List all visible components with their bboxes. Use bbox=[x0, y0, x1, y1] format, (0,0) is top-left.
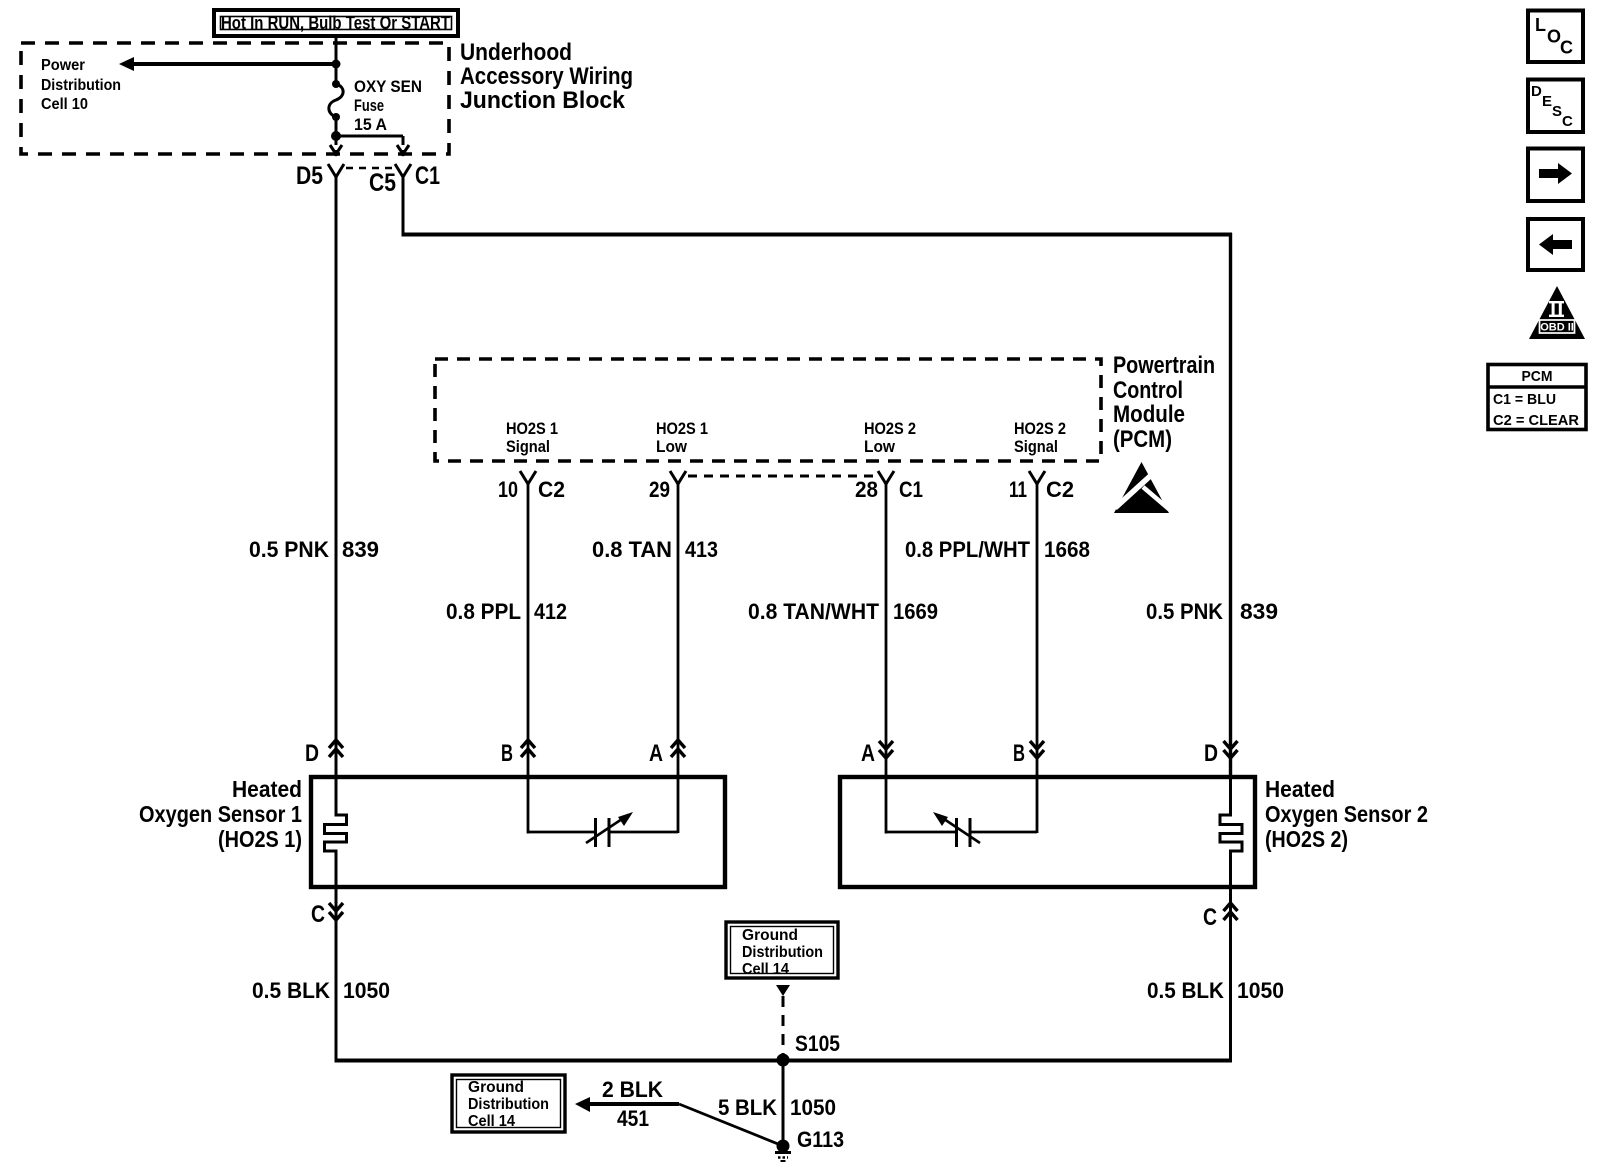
svg-text:1050: 1050 bbox=[1237, 978, 1284, 1003]
Power Distribution Cell 10 label bbox=[41, 57, 121, 113]
svg-text:D: D bbox=[1531, 83, 1542, 100]
svg-text:839: 839 bbox=[342, 537, 379, 562]
svg-text:5 BLK: 5 BLK bbox=[718, 1095, 777, 1120]
HO2S2 sensor box bbox=[840, 777, 1255, 887]
svg-text:HO2S 1: HO2S 1 bbox=[506, 419, 558, 438]
svg-text:0.5 BLK: 0.5 BLK bbox=[1147, 978, 1224, 1003]
svg-text:C: C bbox=[1562, 113, 1573, 130]
svg-text:Cell 14: Cell 14 bbox=[468, 1113, 515, 1130]
node at arrow junction bbox=[332, 60, 341, 69]
svg-text:1668: 1668 bbox=[1044, 537, 1090, 562]
Y connector at D5 bbox=[328, 164, 344, 177]
svg-text:C2: C2 bbox=[1046, 477, 1074, 502]
wire C1 down, right, and down right side (0.5 PNK 839) bbox=[402, 177, 405, 236]
label 0.5 PNK 839 right bbox=[1146, 599, 1278, 624]
svg-text:Heated: Heated bbox=[232, 776, 302, 802]
HO2S 2 Signal pin label bbox=[1014, 419, 1066, 456]
icon forward arrow bbox=[1528, 149, 1583, 202]
svg-text:1050: 1050 bbox=[343, 978, 390, 1003]
Powertrain Control Module (PCM) label bbox=[1113, 352, 1215, 453]
pin D of HO2S1 bbox=[305, 740, 343, 767]
svg-text:Low: Low bbox=[864, 437, 896, 456]
svg-text:D: D bbox=[1204, 740, 1218, 767]
svg-text:1050: 1050 bbox=[790, 1095, 836, 1120]
pin 28 C1 bbox=[855, 471, 923, 502]
HO2S1 sensor box bbox=[311, 777, 725, 887]
svg-text:Distribution: Distribution bbox=[41, 77, 121, 94]
label 0.5 PNK 839 left bbox=[249, 537, 379, 562]
pin 29 bbox=[649, 471, 686, 502]
svg-text:C1: C1 bbox=[899, 477, 923, 502]
icon LOC bbox=[1528, 11, 1583, 63]
svg-text:10: 10 bbox=[498, 477, 518, 502]
branch wire to C1 drop bbox=[336, 135, 403, 138]
svg-text:Fuse: Fuse bbox=[354, 96, 384, 115]
pin B of HO2S2 bbox=[1013, 740, 1044, 767]
svg-text:0.8 PPL: 0.8 PPL bbox=[446, 599, 521, 624]
svg-text:C: C bbox=[311, 901, 325, 928]
svg-text:O: O bbox=[1547, 27, 1561, 47]
arrow to Power Distribution bbox=[119, 57, 336, 71]
svg-text:0.5 PNK: 0.5 PNK bbox=[1146, 599, 1223, 624]
dashed drop from box to S105 bbox=[776, 985, 790, 1058]
svg-text:C: C bbox=[1203, 904, 1217, 931]
svg-text:Junction Block: Junction Block bbox=[460, 87, 626, 114]
HO2S 1 Low pin label bbox=[656, 419, 708, 456]
icon OBD II triangle bbox=[1529, 286, 1585, 339]
svg-text:C1 = BLU: C1 = BLU bbox=[1493, 391, 1556, 408]
svg-text:2 BLK: 2 BLK bbox=[602, 1077, 663, 1102]
svg-text:C1: C1 bbox=[415, 162, 440, 190]
label 0.5 BLK 1050 left bbox=[252, 978, 390, 1003]
svg-text:C2 = CLEAR: C2 = CLEAR bbox=[1493, 412, 1579, 429]
svg-text:S: S bbox=[1552, 103, 1562, 120]
svg-text:A: A bbox=[861, 740, 875, 767]
svg-text:Distribution: Distribution bbox=[742, 944, 823, 961]
svg-text:Low: Low bbox=[656, 437, 688, 456]
svg-text:D: D bbox=[305, 740, 319, 767]
svg-text:Control: Control bbox=[1113, 377, 1183, 404]
svg-text:Oxygen Sensor 2: Oxygen Sensor 2 bbox=[1265, 801, 1428, 827]
wire pin11 to HO2S2 B (0.8 PPL/WHT 1668) bbox=[1036, 484, 1039, 779]
svg-text:15 A: 15 A bbox=[354, 115, 387, 134]
ESD symbol bbox=[1114, 462, 1170, 513]
svg-text:Hot In RUN, Bulb Test Or START: Hot In RUN, Bulb Test Or START bbox=[221, 13, 450, 33]
heater element inside HO2S2 bbox=[1220, 779, 1242, 887]
svg-text:Heated: Heated bbox=[1265, 776, 1335, 802]
svg-text:0.8 PPL/WHT: 0.8 PPL/WHT bbox=[905, 537, 1031, 562]
svg-text:Signal: Signal bbox=[506, 437, 550, 456]
icon DESC bbox=[1528, 80, 1583, 133]
Ground Distribution Cell 14 box (lower left) bbox=[452, 1075, 565, 1132]
node below fuse bbox=[331, 131, 341, 141]
wire pin29 to HO2S1 A (0.8 TAN 413) bbox=[677, 484, 680, 779]
pin D of HO2S2 bbox=[1204, 740, 1238, 767]
heater element inside HO2S1 bbox=[325, 779, 347, 887]
Hot In RUN title box bbox=[214, 10, 458, 36]
HO2S 1 Signal pin label bbox=[506, 419, 558, 456]
svg-text:0.8 TAN: 0.8 TAN bbox=[592, 537, 672, 562]
Y connector at C5/C1 bbox=[395, 164, 411, 177]
svg-text:451: 451 bbox=[617, 1106, 649, 1131]
pin 10 C2 bbox=[498, 471, 565, 502]
svg-text:Signal: Signal bbox=[1014, 437, 1058, 456]
svg-text:(PCM): (PCM) bbox=[1113, 426, 1172, 453]
Ground Distribution Cell 14 box (middle) bbox=[726, 922, 838, 978]
svg-text:Oxygen Sensor 1: Oxygen Sensor 1 bbox=[139, 801, 302, 827]
junction block dashed box bbox=[21, 43, 449, 154]
svg-text:B: B bbox=[501, 740, 513, 767]
wire pin10 to HO2S1 B (0.8 PPL 412) bbox=[527, 484, 530, 779]
svg-text:Power: Power bbox=[41, 57, 85, 74]
pin A of HO2S2 bbox=[861, 740, 893, 767]
svg-text:HO2S 2: HO2S 2 bbox=[1014, 419, 1066, 438]
wire pin28 to HO2S2 A (0.8 TAN/WHT 1669) bbox=[885, 484, 888, 779]
svg-text:PCM: PCM bbox=[1522, 368, 1553, 385]
svg-text:S105: S105 bbox=[795, 1031, 840, 1056]
sensing element inside HO2S1 bbox=[528, 779, 678, 847]
svg-text:28: 28 bbox=[855, 477, 878, 502]
svg-text:(HO2S 1): (HO2S 1) bbox=[218, 826, 302, 852]
icon back arrow bbox=[1528, 219, 1583, 270]
svg-text:C2: C2 bbox=[538, 477, 565, 502]
wire HO2S2 C down (0.5 BLK 1050) bbox=[1229, 887, 1232, 1062]
wire S105 to G113 (5 BLK 1050) bbox=[782, 1060, 785, 1146]
svg-text:HO2S 1: HO2S 1 bbox=[656, 419, 708, 438]
svg-text:0.8 TAN/WHT: 0.8 TAN/WHT bbox=[748, 599, 880, 624]
PCM connector legend box bbox=[1488, 365, 1586, 430]
svg-text:C: C bbox=[1560, 38, 1573, 58]
svg-text:1669: 1669 bbox=[893, 599, 938, 624]
svg-text:D5: D5 bbox=[296, 162, 323, 190]
label 0.5 BLK 1050 right bbox=[1147, 978, 1284, 1003]
svg-text:Accessory Wiring: Accessory Wiring bbox=[460, 63, 633, 90]
svg-text:839: 839 bbox=[1240, 599, 1278, 624]
pin 11 C2 bbox=[1009, 471, 1074, 502]
svg-text:A: A bbox=[649, 740, 663, 767]
wire fuse to junction node bbox=[335, 117, 338, 145]
dashed connector line between pin 29 and pin 28 bbox=[688, 475, 876, 478]
bottom ground bus wire bbox=[335, 1059, 1233, 1063]
svg-text:E: E bbox=[1542, 93, 1552, 110]
ground G113 bbox=[775, 1127, 844, 1161]
arrow down at D5 feed bbox=[330, 145, 342, 156]
svg-text:Underhood: Underhood bbox=[460, 39, 572, 66]
PCM dashed box bbox=[435, 359, 1101, 461]
svg-text:OXY SEN: OXY SEN bbox=[354, 77, 422, 96]
svg-text:HO2S 2: HO2S 2 bbox=[864, 419, 916, 438]
svg-text:L: L bbox=[1535, 15, 1546, 35]
svg-text:B: B bbox=[1013, 740, 1025, 767]
svg-text:Powertrain: Powertrain bbox=[1113, 352, 1215, 379]
svg-text:Cell 10: Cell 10 bbox=[41, 96, 88, 113]
svg-text:G113: G113 bbox=[797, 1127, 844, 1152]
HO2S1 label bbox=[139, 776, 302, 852]
pin C of HO2S2 bbox=[1203, 903, 1238, 931]
HO2S2 label bbox=[1265, 776, 1428, 852]
svg-text:412: 412 bbox=[534, 599, 567, 624]
wire from Hot box down bbox=[335, 36, 338, 83]
svg-text:(HO2S 2): (HO2S 2) bbox=[1265, 826, 1348, 852]
svg-text:Distribution: Distribution bbox=[468, 1096, 549, 1113]
svg-text:Ground: Ground bbox=[468, 1079, 524, 1096]
svg-text:Ground: Ground bbox=[742, 927, 798, 944]
svg-text:Module: Module bbox=[1113, 401, 1185, 428]
pin C of HO2S1 bbox=[311, 901, 343, 928]
pin B of HO2S1 bbox=[501, 740, 535, 767]
sensing element inside HO2S2 bbox=[886, 779, 1037, 847]
svg-text:0.5 BLK: 0.5 BLK bbox=[252, 978, 330, 1003]
wire HO2S1 C down (0.5 BLK 1050) bbox=[335, 887, 338, 1062]
arrow down at C1 feed bbox=[397, 145, 409, 156]
diagonal wire to G113 bbox=[679, 1104, 783, 1146]
svg-text:0.5 PNK: 0.5 PNK bbox=[249, 537, 329, 562]
pin A of HO2S1 bbox=[649, 740, 685, 767]
svg-text:C5: C5 bbox=[369, 169, 396, 197]
svg-text:29: 29 bbox=[649, 477, 670, 502]
dashed connector line between D5 and C5 bbox=[346, 167, 394, 169]
arrow and wire 2 BLK 451 bbox=[575, 1077, 679, 1131]
svg-text:OBD II: OBD II bbox=[1540, 322, 1574, 334]
fuse label bbox=[354, 77, 422, 134]
fuse OXY SEN 15 A bbox=[329, 80, 343, 121]
svg-text:Cell 14: Cell 14 bbox=[742, 961, 789, 978]
Underhood Accessory Wiring Junction Block label bbox=[460, 39, 633, 114]
svg-text:413: 413 bbox=[685, 537, 718, 562]
svg-text:11: 11 bbox=[1009, 477, 1027, 502]
wire D5 down to HO2S1 (0.5 PNK 839) bbox=[335, 177, 338, 779]
splice S105 bbox=[777, 1054, 790, 1067]
HO2S 2 Low pin label bbox=[864, 419, 916, 456]
